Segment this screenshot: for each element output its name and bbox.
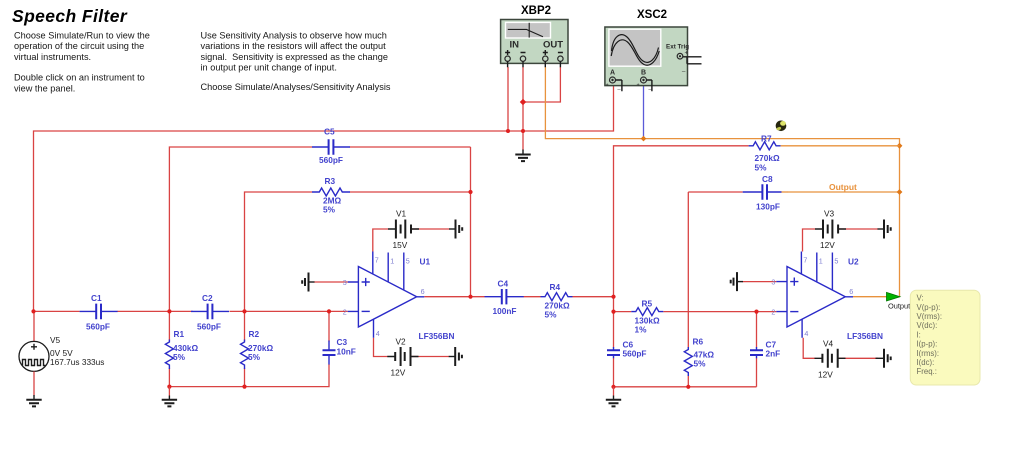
svg-text:130pF: 130pF — [756, 202, 780, 212]
wire XBP2 IN+ drop — [507, 67, 509, 131]
svg-text:12V: 12V — [818, 370, 833, 380]
svg-text:signal. Sensitivity is expres: signal. Sensitivity is expressed as the … — [201, 52, 388, 62]
battery V1 15V — [388, 209, 419, 251]
wire R2 bottom lead — [244, 368, 246, 386]
svg-text:2nF: 2nF — [766, 349, 781, 359]
battery V4 12V — [815, 339, 846, 380]
svg-text:V3: V3 — [824, 209, 835, 219]
junction dot C6 bottom — [611, 385, 615, 389]
svg-text:IN: IN — [510, 40, 520, 51]
svg-text:V(rms):: V(rms): — [917, 312, 943, 321]
svg-text:Freq.:: Freq.: — [917, 367, 937, 376]
resistor R3 — [312, 176, 350, 215]
svg-text:+: + — [637, 83, 640, 89]
wire top input bus (source to XBP2 IN+ and XSC2 A) — [34, 84, 614, 311]
svg-text:I:: I: — [917, 330, 921, 339]
wire R7 tap to mid column — [614, 146, 749, 312]
svg-text:560pF: 560pF — [623, 349, 647, 359]
wire U2 output orange — [853, 296, 900, 298]
svg-text:167.7us 333us: 167.7us 333us — [50, 357, 104, 367]
wire R5 to U2 pin2 — [663, 311, 776, 313]
resistor R2 — [241, 329, 274, 369]
wire U1 pin7 to V1 — [373, 229, 388, 252]
ground at U1 pin3 (rotated left) — [302, 273, 314, 292]
wire C7 bottom lead — [756, 358, 758, 387]
wire R3 right — [350, 191, 471, 193]
svg-text:A: A — [610, 70, 615, 77]
junction dot R1 top — [167, 309, 171, 313]
svg-text:100nF: 100nF — [493, 306, 517, 316]
note text block 2 — [201, 31, 391, 93]
ground right of V1 (rotated right) — [449, 220, 462, 239]
svg-text:7: 7 — [375, 256, 379, 265]
capacitor C3 — [323, 337, 356, 365]
wire C7 top lead — [756, 312, 758, 348]
capacitor C5 — [312, 127, 350, 166]
svg-text:560pF: 560pF — [319, 155, 343, 165]
svg-text:Choose Simulate/Run to view th: Choose Simulate/Run to view the — [14, 31, 150, 41]
wire C6 column — [613, 312, 615, 348]
wire R4 to mid column — [573, 296, 614, 298]
capacitor C6 — [607, 340, 646, 359]
svg-text:R4: R4 — [550, 282, 561, 292]
svg-text:7: 7 — [803, 256, 807, 265]
svg-text:C1: C1 — [91, 293, 102, 303]
label Output orange — [829, 182, 857, 192]
junction dot C7 top — [754, 310, 758, 314]
wire C2 to U1 pin2 node — [230, 310, 348, 312]
wire V4 to ground — [838, 357, 878, 359]
svg-text:Double click on an instrument: Double click on an instrument to — [14, 73, 145, 83]
wire XBP2 OUT+ orange to output net — [545, 67, 899, 297]
ground right of V2 (rotated right) — [449, 347, 462, 366]
wire V2 to ground — [411, 356, 450, 358]
ground below V5 — [26, 395, 41, 406]
svg-text:Ext Trig: Ext Trig — [666, 44, 689, 51]
note text block 1 — [14, 31, 150, 94]
svg-text:2: 2 — [771, 308, 775, 317]
svg-text:Speech Filter: Speech Filter — [12, 6, 128, 26]
svg-text:5: 5 — [834, 257, 838, 266]
svg-text:5%: 5% — [173, 352, 186, 362]
wire bottom bus right stage — [614, 386, 757, 388]
wire R6 bottom lead — [687, 375, 689, 386]
svg-text:3: 3 — [771, 278, 775, 287]
capacitor C4 — [485, 279, 524, 317]
svg-text:U2: U2 — [848, 257, 859, 267]
junction dot R4 right — [611, 295, 615, 299]
svg-text:10nF: 10nF — [337, 347, 356, 357]
svg-text:XSC2: XSC2 — [637, 9, 667, 21]
probe ball above R7 — [776, 121, 787, 132]
wire R5 left lead — [614, 311, 632, 313]
wire C8 R6 column — [687, 192, 689, 348]
source V5 — [19, 335, 104, 371]
wire C8 left lead — [688, 191, 742, 193]
svg-text:12V: 12V — [391, 368, 406, 378]
wire V3 to ground — [838, 228, 878, 230]
svg-text:5: 5 — [406, 257, 410, 266]
junction dot R6 bottom — [686, 385, 690, 389]
op-amp U1 — [343, 252, 455, 342]
svg-text:560pF: 560pF — [197, 322, 221, 332]
svg-text:15V: 15V — [393, 240, 408, 250]
svg-text:1: 1 — [390, 257, 394, 266]
svg-text:V4: V4 — [823, 339, 834, 349]
junction dot XBP2 IN+ — [506, 129, 510, 133]
wire R2 top lead — [244, 311, 246, 340]
svg-text:4: 4 — [376, 329, 380, 338]
svg-text:R5: R5 — [642, 299, 653, 309]
wire C4 to R4 — [524, 296, 541, 298]
svg-text:Output: Output — [829, 182, 857, 192]
svg-text:C5: C5 — [324, 127, 335, 137]
op-amp U2 — [771, 252, 883, 342]
svg-text:R3: R3 — [325, 176, 336, 186]
wire U2 pin3 from ground — [743, 281, 777, 283]
svg-text:R2: R2 — [249, 329, 260, 339]
junction dot R1 bottom ground — [167, 385, 171, 389]
wire V5 bottom — [33, 371, 35, 395]
svg-text:operation of the circuit using: operation of the circuit using the — [14, 41, 144, 51]
resistor R5 — [631, 299, 663, 335]
wire C6 bottom to ground — [613, 358, 615, 387]
wire U1 output to C4 — [424, 296, 484, 298]
svg-text:V5: V5 — [50, 335, 61, 345]
svg-text:R7: R7 — [761, 134, 772, 144]
svg-text:1%: 1% — [635, 325, 648, 335]
junction dot XBP2 IN- crossing — [521, 129, 525, 133]
svg-text:6: 6 — [421, 287, 425, 296]
wire U1 pin4 to V2 — [374, 338, 388, 357]
svg-text:Choose Simulate/Analyses/Sensi: Choose Simulate/Analyses/Sensitivity Ana… — [201, 82, 391, 92]
wire C5 feedback loop left — [169, 147, 312, 311]
svg-text:Output: Output — [888, 302, 910, 311]
wire output column U1 — [470, 147, 472, 297]
svg-text:OUT: OUT — [543, 40, 563, 51]
ground right of V3 (rotated right) — [878, 220, 891, 239]
wire U2 pin4 to V4 — [803, 338, 815, 359]
svg-text:_: _ — [681, 66, 686, 72]
resistor R4 — [541, 282, 573, 320]
wire XBP2 IN- to ground — [522, 67, 524, 151]
svg-text:2: 2 — [343, 308, 347, 317]
svg-text:C2: C2 — [202, 293, 213, 303]
svg-text:I(p-p):: I(p-p): — [917, 340, 938, 349]
svg-text:virtual instruments.: virtual instruments. — [14, 52, 91, 62]
svg-text:LF356BN: LF356BN — [419, 331, 455, 341]
bode plotter XBP2 — [501, 5, 568, 67]
svg-text:I(rms):: I(rms): — [917, 349, 940, 358]
svg-text:R1: R1 — [174, 329, 185, 339]
wire U1 pin3 from ground — [314, 281, 348, 283]
junction diamond B channel orange — [641, 136, 647, 142]
junction dot U1 output — [468, 295, 472, 299]
junction dot input at V5 — [31, 309, 35, 313]
ground below C6 — [606, 387, 621, 407]
svg-text:Use Sensitivity Analysis to ob: Use Sensitivity Analysis to observe how … — [201, 31, 387, 41]
ground below R1 — [162, 387, 177, 407]
svg-text:C4: C4 — [498, 279, 509, 289]
junction dot R2 bottom — [242, 385, 246, 389]
wire V5 to C1 and input column — [34, 311, 80, 341]
svg-text:5%: 5% — [323, 205, 336, 215]
wire R1 bottom lead — [168, 368, 170, 386]
capacitor C2 — [191, 293, 229, 332]
svg-text:U1: U1 — [420, 257, 431, 267]
capacitor C7 — [750, 340, 780, 359]
svg-text:R6: R6 — [693, 337, 704, 347]
svg-text:B: B — [641, 70, 646, 77]
svg-text:+: + — [606, 83, 609, 89]
svg-text:4: 4 — [804, 329, 808, 338]
resistor R7 — [749, 134, 900, 173]
yellow measurement box — [910, 290, 980, 385]
svg-text:5%: 5% — [755, 163, 768, 173]
svg-text:3: 3 — [343, 278, 347, 287]
svg-text:XBP2: XBP2 — [521, 5, 551, 17]
capacitor C1 — [80, 293, 118, 332]
svg-text:560pF: 560pF — [86, 322, 110, 332]
junction diamond C8 right orange — [897, 189, 903, 195]
ground right of V4 (rotated right) — [876, 349, 891, 368]
svg-text:270kΩ: 270kΩ — [755, 153, 780, 163]
svg-text:12V: 12V — [820, 240, 835, 250]
junction dot R5 left — [611, 310, 615, 314]
junction dot C3 top — [327, 309, 331, 313]
wire C3 bottom to ground bus — [169, 364, 329, 387]
svg-text:5%: 5% — [248, 352, 261, 362]
svg-text:LF356BN: LF356BN — [847, 331, 883, 341]
svg-text:V(dc):: V(dc): — [917, 321, 938, 330]
svg-text:V2: V2 — [396, 337, 407, 347]
wire C3 top lead — [328, 311, 330, 341]
wire R3 feedback left — [245, 192, 313, 311]
svg-text:variations in the resistors wi: variations in the resistors will affect … — [201, 41, 387, 51]
resistor R6 — [684, 337, 714, 377]
svg-text:5%: 5% — [545, 310, 558, 320]
svg-text:C8: C8 — [762, 174, 773, 184]
svg-text:1: 1 — [819, 257, 823, 266]
svg-text:V(p-p):: V(p-p): — [917, 303, 941, 312]
wire C5 right to output column — [350, 146, 471, 148]
wire C8 right orange — [788, 191, 900, 193]
battery V2 12V — [387, 337, 418, 378]
svg-text:view the panel.: view the panel. — [14, 83, 75, 93]
capacitor C8 — [743, 174, 788, 212]
svg-text:in output per unit change of i: in output per unit change of input. — [201, 63, 337, 73]
wire XSC2 B blue drop — [643, 84, 645, 139]
oscilloscope XSC2 — [605, 9, 702, 91]
ground at U2 pin3 (rotated left) — [731, 272, 743, 291]
svg-text:+: + — [685, 51, 689, 57]
svg-text:V:: V: — [917, 294, 924, 303]
svg-text:6: 6 — [849, 287, 853, 296]
svg-text:5%: 5% — [694, 359, 707, 369]
svg-text:V1: V1 — [396, 209, 407, 219]
battery V3 12V — [815, 209, 846, 251]
output arrow green — [887, 292, 911, 310]
wire V1 to ground — [411, 228, 450, 230]
junction diamond R7 right orange — [897, 143, 903, 149]
wire C1 to C2 — [117, 310, 192, 312]
junction diamond OUT- — [520, 99, 526, 105]
svg-text:I(dc):: I(dc): — [917, 358, 935, 367]
wire U2 pin7 to V3 — [803, 229, 816, 252]
wire XBP2 OUT- to IN- — [523, 67, 560, 102]
wire R1 top lead — [168, 311, 170, 340]
junction dot R3 right — [468, 190, 472, 194]
resistor R1 — [165, 329, 198, 369]
ground below XBP2 — [515, 150, 530, 162]
svg-text:C3: C3 — [337, 337, 348, 347]
junction dot R2 top — [242, 309, 246, 313]
